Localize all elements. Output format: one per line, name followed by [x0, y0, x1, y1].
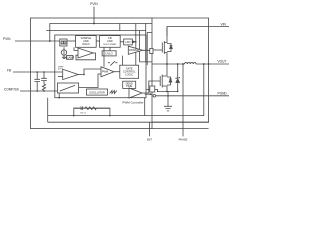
svg-text:TIME: TIME: [126, 84, 132, 88]
block ramp generator: [57, 83, 78, 93]
svg-text:PVIN: PVIN: [3, 37, 11, 41]
capacitor C1 compensation: [34, 72, 40, 91]
switch S1: [108, 61, 117, 65]
wire: [114, 71, 120, 73]
transistor Q2 low-side MOSFET: [159, 76, 161, 86]
op-amp T2 error amp: [63, 69, 78, 79]
body diode Q2: [167, 77, 172, 85]
sense pin box: [150, 86, 155, 92]
op-amp IC outer box U1: [31, 18, 153, 129]
svg-text:R1 C1: R1 C1: [81, 112, 88, 114]
transistor Q1 high-side MOSFET: [161, 43, 163, 53]
svg-text:0.8 V: 0.8 V: [58, 69, 63, 71]
wire external VIN feed: [167, 27, 229, 37]
wire bottom outer extension: [152, 128, 209, 130]
op-amp T3 PWM comparator: [101, 67, 114, 77]
sawtooth waveform: [110, 91, 117, 94]
block oscillator: [87, 89, 108, 95]
op-amp T4 low driver: [129, 88, 142, 98]
wire current sense: [146, 90, 158, 92]
svg-text:PWM: PWM: [102, 70, 108, 74]
wire right column 3: [147, 33, 152, 66]
svg-text:DRIVER: DRIVER: [129, 48, 139, 52]
op-amp T1 buffer: [78, 48, 93, 58]
ground: [164, 91, 172, 111]
svg-text:UVLO: UVLO: [106, 51, 113, 55]
wire: [96, 40, 99, 42]
wire source gnd rail: [158, 90, 178, 92]
svg-text:OSCILLATOR: OSCILLATOR: [89, 92, 105, 95]
svg-text:LDO: LDO: [125, 40, 130, 44]
junction dots: [36, 23, 209, 117]
block gate control logic: [120, 65, 139, 78]
power stage box: [152, 18, 209, 122]
wire VIN top pin: [93, 7, 95, 24]
wire with arrow: [132, 24, 136, 66]
wire right column: [140, 31, 153, 62]
sense box: [60, 39, 67, 46]
block UVLO: [102, 51, 116, 56]
wire VOUT: [196, 63, 229, 65]
block sample and hold: [76, 36, 97, 48]
wire FB pin: [13, 71, 62, 73]
svg-text:LOGIC: LOGIC: [125, 73, 133, 77]
svg-text:CLAMP: CLAMP: [65, 55, 74, 59]
svg-text:HOLD: HOLD: [82, 42, 89, 46]
wire bottom line B: [48, 121, 209, 123]
wire pin1: [15, 40, 60, 42]
wire PGND drop: [182, 64, 184, 136]
wire EA out: [78, 69, 101, 75]
node VREF label: [58, 76, 63, 78]
svg-text:AND: AND: [107, 39, 113, 43]
svg-text:PGND: PGND: [218, 91, 228, 95]
svg-text:SOFT-START: SOFT-START: [103, 43, 117, 46]
clamp box: [67, 56, 74, 60]
wire left drop: [47, 98, 49, 123]
block deadtime: [123, 81, 136, 88]
wire ramp out: [79, 74, 101, 88]
svg-text:FB: FB: [7, 68, 11, 72]
op-amp T5 high driver: [128, 46, 142, 54]
wire right column 2: [120, 24, 146, 62]
svg-text:BST: BST: [147, 137, 152, 141]
capacitor C2 + resistor R3 compensation: [41, 72, 47, 84]
wire PGND rail: [156, 95, 229, 97]
arrowhead current limit: [150, 93, 153, 95]
svg-text:VOUT: VOUT: [218, 60, 227, 64]
wire COMP pin: [20, 90, 57, 92]
svg-text:PHASE: PHASE: [179, 137, 188, 141]
svg-text:PWM Controller: PWM Controller: [122, 100, 143, 104]
pin circle PGND: [153, 95, 156, 98]
wire: [120, 41, 124, 43]
block soft-start: [100, 36, 121, 48]
current source I1: [61, 50, 66, 55]
PWM controller inner box: [55, 35, 146, 98]
feedback divider loop: [74, 108, 110, 115]
wire osc down: [144, 98, 146, 116]
signal arrow: [133, 40, 136, 43]
wire switch node: [152, 63, 185, 65]
wire internal supply rail: [46, 30, 145, 32]
svg-text:PVIN: PVIN: [90, 2, 98, 6]
diode D1 Schottky: [176, 64, 180, 91]
capacitor Cff + resistor Rfb top branch: [74, 106, 85, 110]
arrow current limit: [145, 93, 150, 95]
wire BST stub: [149, 122, 151, 136]
wire bottom line A: [48, 64, 204, 116]
block UVLO small: [124, 39, 133, 45]
svg-text:COMP/SS: COMP/SS: [4, 87, 19, 91]
wire: [67, 40, 76, 42]
body diode Q1: [167, 44, 172, 52]
pin box: [150, 48, 153, 53]
inductor L1: [185, 63, 197, 64]
svg-text:VIN: VIN: [221, 23, 227, 27]
wire internal VIN rail: [50, 24, 152, 42]
